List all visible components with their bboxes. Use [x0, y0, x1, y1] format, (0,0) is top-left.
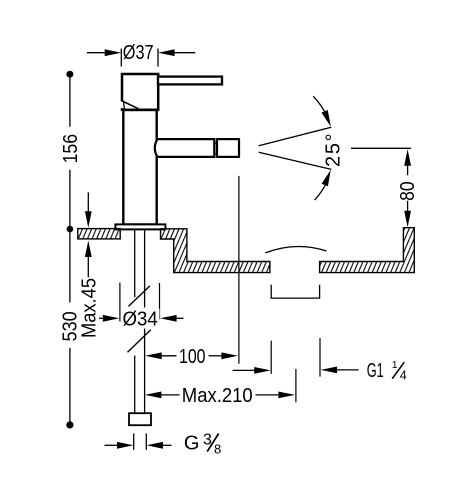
supply pipe right	[144, 230, 146, 412]
supply hose connector G3/8	[129, 413, 151, 425]
label G1 1/4	[320, 338, 407, 382]
pop-up waste lid arc	[265, 247, 326, 253]
spray angle 25 degrees	[259, 96, 345, 200]
svg-text:Ø37: Ø37	[123, 42, 154, 64]
base flange	[115, 224, 165, 229]
svg-text:25°: 25°	[322, 132, 344, 167]
dimension Ø34	[99, 283, 184, 331]
dimension Max.45	[79, 192, 101, 338]
dimension G 3/8	[105, 431, 222, 456]
handle seam notch	[120, 100, 138, 108]
svg-text:Max.45: Max.45	[79, 278, 101, 338]
aerator tip	[214, 139, 239, 157]
svg-text:8: 8	[214, 442, 221, 457]
dimension 80	[351, 148, 419, 227]
countertop right band with wall	[320, 228, 415, 273]
dimension 156 vertical	[60, 71, 82, 303]
drain pipe bracket	[271, 285, 319, 298]
faucet cap (upper body)	[122, 74, 158, 110]
countertop left slab	[78, 229, 120, 239]
countertop stepped section	[161, 229, 270, 273]
dimension 100	[145, 176, 239, 368]
supply pipe left	[134, 230, 136, 412]
pipe break slash upper	[128, 286, 150, 307]
drain extension leader	[233, 341, 272, 374]
spout tube	[155, 139, 215, 157]
dimension 530 vertical	[60, 311, 82, 428]
faucet handle lever	[158, 77, 222, 85]
svg-text:G: G	[184, 433, 200, 455]
dimension Max.210	[145, 369, 296, 407]
svg-text:80: 80	[397, 181, 419, 201]
svg-text:4: 4	[400, 368, 407, 382]
svg-text:156: 156	[60, 134, 82, 164]
svg-text:1: 1	[392, 359, 398, 371]
dimension Ø37	[87, 42, 195, 67]
svg-text:G1: G1	[367, 360, 384, 382]
faucet body column	[123, 110, 156, 225]
svg-text:Ø34: Ø34	[123, 308, 158, 330]
svg-text:100: 100	[179, 346, 206, 368]
svg-text:Max.210: Max.210	[182, 385, 253, 407]
pipe break slash lower	[128, 330, 151, 352]
